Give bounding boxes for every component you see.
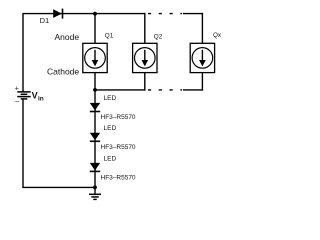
diode D1	[40, 9, 63, 26]
svg-text:Anode: Anode	[55, 32, 80, 42]
wire top rail right solid	[183, 13, 203, 15]
svg-text:–: –	[15, 98, 19, 105]
node junction below Q1	[93, 88, 97, 92]
LED 3	[90, 155, 136, 181]
svg-text:+: +	[15, 86, 19, 93]
svg-text:in: in	[38, 95, 44, 102]
wire LED chain vertical	[94, 90, 96, 187]
wire bottom return rail	[22, 186, 95, 188]
svg-text:V: V	[32, 90, 38, 100]
svg-text:LED: LED	[104, 125, 117, 132]
wire Qx top drop	[201, 13, 203, 44]
svg-text:D1: D1	[40, 16, 50, 25]
current source Q2	[133, 33, 163, 72]
svg-text:Q1: Q1	[105, 32, 114, 39]
svg-text:LED: LED	[104, 95, 117, 102]
battery V_in	[15, 86, 44, 106]
wire left vertical upper	[22, 13, 24, 92]
current source Qx	[190, 32, 222, 72]
LED 1	[90, 95, 136, 121]
svg-text:HF3–R5570: HF3–R5570	[101, 144, 136, 151]
node junction ground	[93, 186, 97, 190]
LED 2	[90, 125, 136, 151]
wire top rail dashed segment	[148, 13, 182, 15]
wire Qx bottom riser	[201, 73, 203, 91]
wire left vertical lower	[22, 99, 24, 187]
wire Q2 top drop	[144, 13, 146, 44]
node junction top of Q1 string	[93, 12, 97, 16]
svg-text:HF3–R5570: HF3–R5570	[101, 174, 136, 181]
svg-text:Cathode: Cathode	[47, 67, 79, 77]
svg-text:Q2: Q2	[154, 33, 163, 40]
ground	[89, 187, 101, 199]
svg-text:HF3–R5570: HF3–R5570	[101, 114, 136, 121]
svg-text:LED: LED	[104, 155, 117, 162]
wire top rail left	[23, 13, 145, 15]
svg-text:Qx: Qx	[213, 32, 222, 39]
wire bottom rail right solid	[183, 89, 203, 91]
wire bottom rail Q1 to Q2	[95, 89, 146, 91]
current source Q1	[83, 32, 114, 72]
wire Q1 top drop	[94, 14, 96, 44]
wire Q2 bottom riser	[144, 73, 146, 91]
wire bottom rail dashed segment	[148, 89, 182, 91]
wire Q1 bottom drop	[94, 73, 96, 90]
